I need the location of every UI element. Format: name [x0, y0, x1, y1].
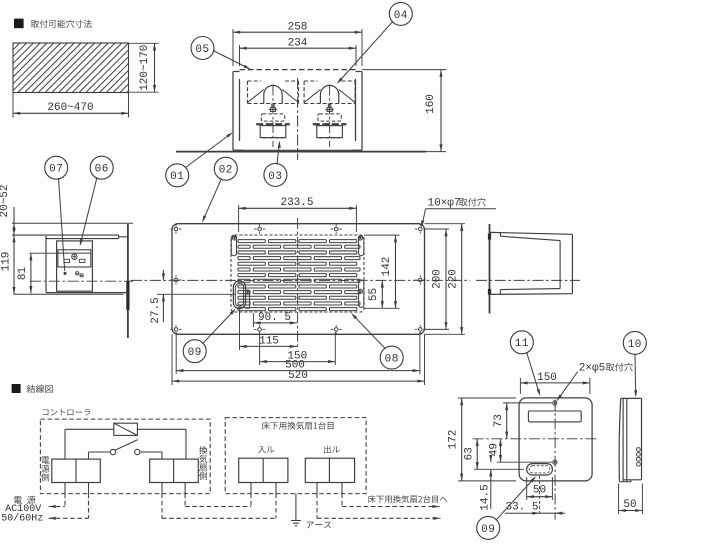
svg-text:2×φ5: 2×φ5 [579, 363, 605, 375]
svg-text:05: 05 [195, 44, 209, 56]
switch contacts [110, 449, 115, 454]
dim 50 (bushing) [526, 477, 528, 500]
svg-text:220: 220 [448, 269, 460, 289]
wire: top loop [65, 428, 114, 430]
controller side: cord ribs [637, 448, 641, 452]
dim 233.5 [238, 205, 240, 232]
dim 50 (side view) [618, 484, 620, 515]
terminal block: fan in [239, 458, 288, 482]
label: power side (電源側) vertical [42, 457, 50, 465]
svg-text:50: 50 [533, 485, 546, 497]
svg-text:150: 150 [537, 372, 557, 384]
dim 234 [239, 45, 241, 66]
svg-text:01: 01 [170, 171, 184, 183]
svg-text:49: 49 [488, 443, 500, 456]
dim 115 [239, 310, 241, 351]
dim 14.5 [490, 455, 492, 462]
svg-text:258: 258 [288, 21, 308, 33]
top view: cord handle capsule 09 [233, 281, 245, 309]
wire: power feed left [64, 494, 66, 507]
svg-text:119: 119 [1, 252, 13, 272]
fan no.1 dashed box [225, 418, 366, 494]
front view: outer case 01 [232, 72, 234, 151]
svg-text:90. 5: 90. 5 [258, 312, 291, 324]
svg-text:73: 73 [493, 414, 505, 427]
callout 04 [389, 2, 412, 25]
dim 120~170 (vertical) [129, 42, 159, 44]
label: underfloor fan no.1 (床下用換気扇1台目) [262, 422, 334, 430]
right side view: inner lip [500, 236, 560, 240]
dim 160 [362, 69, 447, 71]
fan unit at x=273 [247, 81, 249, 104]
terminal block: controller fan side [150, 459, 199, 482]
dim 49 [497, 461, 552, 463]
right side view: duct body outline [491, 232, 573, 234]
controller front panel 11 [519, 398, 592, 481]
terminal stubs [64, 483, 66, 494]
svg-text:50/60Hz: 50/60Hz [1, 512, 43, 524]
front view: centreline between fans [297, 78, 299, 160]
label: fan side (換気扇側) vertical [199, 446, 207, 454]
hatched rect: allowable mounting hole [13, 43, 129, 93]
dim 220 [425, 223, 466, 225]
callout 03 [264, 163, 287, 186]
dim 260~470 (horizontal) [12, 93, 14, 118]
svg-text:260~470: 260~470 [47, 102, 93, 114]
callout 10 [623, 331, 646, 354]
left side: body outline [45, 236, 47, 293]
dim 150 (controller) [519, 378, 521, 394]
left side: centreline [30, 280, 133, 282]
dim 150 [259, 332, 261, 365]
terminal block: fan out [305, 458, 354, 482]
label: wiring diagram heading (結線図) [12, 384, 21, 393]
callout 05 [191, 37, 214, 60]
svg-text:20~52: 20~52 [0, 184, 11, 217]
top view: face plate 02 [172, 224, 425, 335]
callout 09 (controller) [477, 516, 500, 539]
svg-text:04: 04 [394, 10, 408, 22]
top view: grille dashed boundary [231, 235, 364, 312]
label: power source (電源 AC100V 50/60Hz) [14, 496, 36, 504]
left side view: wall plate [127, 224, 129, 338]
dim 142 / 55 extension lines [364, 234, 400, 236]
controller display window [528, 411, 581, 422]
top view: grille screws [232, 236, 236, 240]
dim 119 [13, 235, 15, 294]
svg-text:02: 02 [219, 165, 233, 177]
fan unit at x=329.6 [303, 81, 305, 104]
top view: vertical centreline [297, 218, 299, 350]
top view: horizontal centreline [131, 279, 470, 281]
svg-text:55: 55 [368, 288, 380, 301]
callout 11 [510, 331, 533, 354]
svg-text:200: 200 [432, 269, 444, 289]
label: mounting-hole-size heading (取付可能穴寸法) [14, 19, 24, 29]
wire: fan out to next fan [341, 494, 343, 507]
callout 06 [90, 156, 113, 179]
callout 02 [214, 157, 237, 180]
svg-text:07: 07 [49, 164, 63, 176]
wire: controller to fan upper [184, 494, 186, 507]
left side: small screws [76, 272, 79, 275]
dim 27.5 [157, 293, 236, 295]
svg-text:14.5: 14.5 [480, 484, 492, 510]
svg-text:10×φ7: 10×φ7 [427, 198, 460, 210]
dim 73 [503, 402, 552, 404]
svg-text:09: 09 [481, 524, 495, 536]
svg-text:11: 11 [515, 338, 529, 350]
earth wire and symbol [295, 494, 297, 521]
svg-text:520: 520 [288, 370, 308, 382]
dim 63 [474, 468, 524, 470]
svg-text:142: 142 [381, 257, 393, 277]
terminal block: controller power side [52, 459, 101, 482]
right side view: centreline [476, 279, 580, 281]
dim 33.5 [505, 512, 540, 514]
svg-text:03: 03 [268, 171, 282, 183]
svg-text:120~170: 120~170 [139, 45, 151, 91]
svg-text:63: 63 [463, 447, 475, 460]
callout 08 [380, 346, 403, 369]
dim 90.5 [252, 313, 254, 327]
controller centrelines [473, 438, 597, 440]
svg-text:160: 160 [425, 94, 437, 114]
left side: bottom extension line [14, 293, 124, 295]
controller cable bushing 09 [527, 464, 553, 475]
label: to fan no.2 (床下用換気扇2台目へ) [368, 495, 447, 503]
dim 500 [175, 332, 177, 374]
svg-text:06: 06 [95, 164, 109, 176]
right side view: wall plate line [489, 224, 491, 313]
dim 81 [29, 252, 60, 254]
top view: corner retainer strips [231, 236, 236, 256]
callout 07 [45, 156, 68, 179]
left side: terminal block detail [58, 250, 91, 267]
label: in (入ル) [258, 446, 274, 453]
callout 09 (top view) [183, 340, 206, 363]
controller mounting holes 2x phi5 [553, 401, 557, 405]
dim 258 [232, 29, 234, 66]
top view: louvre slats [238, 240, 265, 243]
svg-text:09: 09 [188, 347, 202, 359]
left side: extension line top (opening top) [12, 222, 133, 224]
left side: body top lip [12, 234, 119, 236]
svg-text:172: 172 [447, 430, 459, 450]
front view: top opening (dashed) 05 [240, 69, 357, 71]
relay box [114, 423, 138, 435]
dim 20~52 [13, 223, 15, 235]
svg-text:08: 08 [385, 354, 399, 366]
front view: ground line [176, 151, 426, 153]
dim 200 [425, 228, 450, 230]
svg-text:33. 5: 33. 5 [505, 501, 538, 513]
label: out (出ル) [324, 445, 339, 453]
svg-text:234: 234 [288, 37, 308, 49]
callout 01 [166, 164, 189, 187]
svg-text:115: 115 [259, 335, 279, 347]
left side: control box 06/07 [57, 241, 93, 291]
dim 172 [458, 397, 516, 399]
svg-text:50: 50 [623, 499, 636, 511]
svg-text:27.5: 27.5 [150, 297, 162, 323]
wire: controller to fan lower [161, 494, 163, 519]
label: earth (アース) [307, 522, 331, 529]
dim 520 [171, 334, 173, 385]
top view: mounting holes (10x phi7) [174, 227, 178, 231]
svg-text:10: 10 [628, 339, 642, 351]
dim 142 [395, 235, 397, 308]
svg-text:81: 81 [17, 267, 29, 281]
svg-text:233.5: 233.5 [280, 197, 313, 209]
label: controller (コントローラ) [43, 409, 90, 416]
controller dashed box [40, 419, 210, 494]
controller side view [619, 399, 621, 482]
dim 55 [381, 280, 383, 308]
